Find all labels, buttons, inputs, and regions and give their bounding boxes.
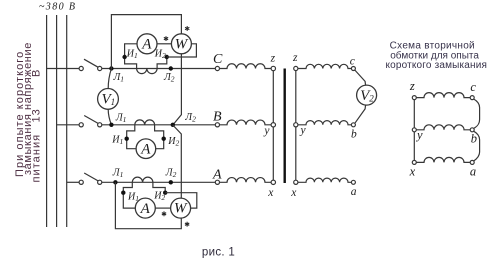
mini wire c-b — [474, 99, 480, 128]
terminal C — [215, 66, 219, 70]
ammeter A2 — [136, 139, 156, 159]
svg-text:b: b — [351, 128, 357, 140]
winding secondary y-b — [298, 121, 351, 125]
terminal A — [215, 180, 219, 184]
switch S2 (phase B) — [79, 123, 83, 127]
svg-text:короткого замыкания: короткого замыкания — [385, 60, 487, 71]
wire primary star link z-y — [272, 71, 274, 123]
mini terminal a — [470, 160, 474, 164]
svg-text:W: W — [174, 201, 188, 217]
wire W2 right terminal — [165, 193, 197, 208]
node I1 phase A — [121, 191, 125, 195]
svg-text:И1: И1 — [126, 49, 138, 61]
svg-text:И2: И2 — [153, 190, 165, 202]
terminal z secondary — [294, 66, 298, 70]
svg-text:13: 13 — [30, 108, 42, 122]
svg-text:V2: V2 — [360, 88, 374, 104]
switch S1 (phase C) — [79, 66, 83, 70]
svg-text:a: a — [351, 186, 357, 198]
wire CT secondary left (phase C) — [125, 44, 137, 69]
svg-text:x: x — [290, 187, 297, 199]
bus line 3 — [66, 15, 68, 227]
mini wire z-y — [413, 100, 415, 128]
mini winding z-c — [416, 93, 470, 98]
svg-text:y: y — [300, 125, 307, 137]
wire A1 to W1 — [157, 43, 171, 45]
transformer core — [284, 69, 286, 184]
wire secondary link z-y — [295, 71, 297, 123]
wire A3 to W2 — [155, 207, 170, 209]
wire CT secondary right (phase A) — [153, 182, 165, 192]
mini winding y-b — [416, 125, 470, 130]
svg-text:И1: И1 — [111, 134, 123, 146]
terminal x secondary — [294, 180, 298, 184]
mini diagram: terminal y — [412, 128, 416, 132]
node I2 phase B — [162, 137, 166, 141]
asterisk W2 current — [162, 211, 166, 216]
wire W2 voltage to phase B — [173, 125, 182, 198]
wire phase B line — [102, 124, 216, 126]
mini winding x-a — [416, 157, 470, 162]
svg-text:y: y — [263, 125, 270, 137]
terminal y secondary — [294, 123, 298, 127]
svg-text:c: c — [350, 55, 355, 67]
svg-text:И2: И2 — [167, 136, 179, 148]
wattmeter W1 — [171, 34, 191, 54]
wire W1 voltage to phase B — [173, 54, 182, 125]
svg-text:c: c — [470, 80, 476, 94]
terminal a — [351, 180, 355, 184]
svg-text:рис. 1: рис. 1 — [202, 247, 235, 259]
svg-text:A: A — [141, 37, 152, 53]
ammeter A1 — [137, 34, 157, 54]
wattmeter W2 — [171, 198, 191, 218]
wire primary star link y-x — [272, 127, 274, 180]
svg-text:Л1: Л1 — [115, 113, 127, 125]
wire V2 to b — [355, 105, 366, 124]
wire W2 voltage loop to L1 — [115, 182, 181, 228]
wire c to V2 — [355, 70, 366, 86]
svg-text:A: A — [212, 168, 222, 183]
svg-text:C: C — [213, 52, 223, 67]
wire phase A from bus — [67, 181, 79, 183]
node I1 phase B — [125, 137, 129, 141]
node L1 phase B — [109, 123, 113, 127]
terminal b — [351, 123, 355, 127]
svg-text:B: B — [213, 110, 222, 125]
mini diagram: terminal z — [412, 96, 416, 100]
svg-text:V1: V1 — [102, 92, 116, 108]
terminal y primary — [271, 123, 275, 127]
bus line 2 — [56, 15, 58, 227]
node I1 phase C — [122, 55, 126, 59]
voltmeter V2 — [357, 85, 377, 105]
mini diagram: terminal x — [412, 160, 416, 164]
svg-text:И1: И1 — [127, 191, 139, 203]
wire V1 to phase B — [108, 109, 111, 125]
asterisk W1 voltage — [185, 26, 189, 31]
svg-text:z: z — [270, 52, 276, 64]
node L1 phase A — [113, 180, 117, 184]
svg-text:Л2: Л2 — [165, 168, 177, 180]
mini wire y-x — [413, 132, 415, 161]
wire secondary link y-x — [295, 127, 297, 180]
CT primary TA2 (phase B bumps) — [135, 120, 155, 125]
terminal c — [351, 67, 355, 71]
wire W1 right terminal — [167, 44, 197, 57]
mini terminal b — [470, 128, 474, 132]
node I2 phase C — [165, 55, 169, 59]
svg-text:z: z — [409, 79, 415, 93]
svg-text:Л1: Л1 — [113, 72, 125, 84]
svg-text:Л1: Л1 — [112, 168, 124, 180]
asterisk W2 voltage — [185, 222, 189, 227]
wire phase C line — [102, 68, 216, 70]
mini wire b-a — [474, 131, 480, 161]
node L1 phase C — [109, 66, 113, 70]
node L2 phase B (junction) — [171, 123, 175, 127]
svg-text:И2: И2 — [154, 49, 166, 61]
wire CT secondary left (phase A) — [123, 182, 135, 208]
winding primary B — [220, 120, 272, 125]
winding primary C — [220, 64, 272, 69]
svg-text:W: W — [175, 37, 189, 53]
terminal B — [215, 123, 219, 127]
note: left caption (supply voltage 13 V at short-circuit test) — [14, 42, 42, 182]
node L2 phase A — [169, 180, 173, 184]
svg-text:Л2: Л2 — [163, 72, 175, 84]
wire phase B from bus — [57, 124, 80, 126]
bus line 1 — [46, 15, 48, 227]
node I2 phase A — [163, 191, 167, 195]
svg-text:A: A — [140, 201, 151, 217]
wire CT secondary left (phase B) — [127, 125, 137, 149]
svg-text:x: x — [409, 165, 416, 179]
svg-text:a: a — [470, 164, 476, 178]
svg-text:питания: питания — [30, 134, 42, 183]
svg-text:В: В — [30, 69, 42, 77]
terminal x primary — [271, 180, 275, 184]
svg-text:x: x — [267, 187, 274, 199]
asterisk W1 current — [164, 36, 168, 41]
svg-text:Л2: Л2 — [184, 112, 196, 124]
winding secondary z-c — [298, 64, 351, 68]
wire phase A line — [102, 181, 216, 183]
winding secondary x-a — [298, 178, 351, 182]
wire CT secondary right (phase C) — [157, 57, 167, 69]
voltmeter V1 — [98, 89, 119, 110]
terminal z primary — [271, 66, 275, 70]
svg-text:z: z — [292, 52, 298, 64]
wire CT secondary right (phase B) — [155, 125, 164, 149]
winding primary A — [220, 178, 272, 183]
wire phase C from bus — [47, 68, 80, 70]
wire W1 voltage loop to L1 — [111, 15, 181, 69]
CT primary TA3 (phase A bumps) — [132, 177, 153, 182]
CT primary TA1 (phase C bumps) — [137, 69, 158, 74]
switch S3 (phase A) — [79, 180, 83, 184]
svg-text:A: A — [140, 141, 151, 157]
node L2 phase C — [169, 66, 173, 70]
ammeter A3 — [135, 198, 155, 218]
svg-text:~380 В: ~380 В — [39, 2, 76, 13]
mini terminal c — [470, 96, 474, 100]
wire V1 to phase C — [108, 69, 111, 89]
